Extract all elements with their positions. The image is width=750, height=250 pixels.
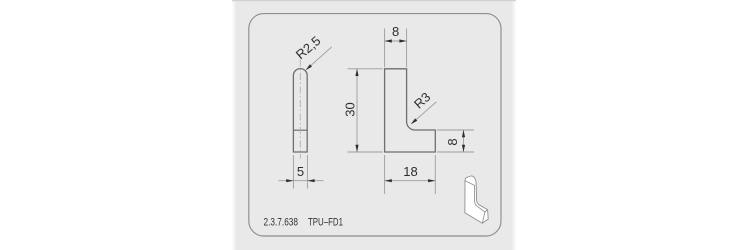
svg-text:30: 30 <box>342 102 357 116</box>
canvas top darker edge <box>232 0 516 1</box>
dimension 5 line <box>279 180 324 182</box>
dimension 8 top: arrow right <box>399 39 406 42</box>
side view: capsule-top profile body <box>293 69 307 152</box>
leader R2,5 line <box>306 47 332 70</box>
dimension 18: line <box>385 180 436 182</box>
3D view: bar front-right edge and front fillet <box>475 185 485 223</box>
dimension 8 top: extension line left <box>384 29 386 68</box>
svg-text:8: 8 <box>392 24 399 39</box>
side view: vertical centerline <box>299 60 301 159</box>
dimension 30: line <box>356 69 358 152</box>
dimension 8 right: line <box>463 130 465 152</box>
dimension 8 right: arrow up <box>462 130 465 137</box>
svg-text:8: 8 <box>445 138 460 145</box>
3D view: top cap tangency line <box>465 181 474 186</box>
gray drawing canvas background <box>232 0 516 250</box>
dimension 30: arrow up <box>355 69 358 76</box>
side view: foot edge line <box>293 129 307 131</box>
dimension 8 top: line <box>385 40 407 42</box>
leader R2,5 arrow <box>306 64 312 70</box>
dimension 5 extension line right <box>306 155 308 189</box>
dimension 18: extension line right <box>434 155 436 194</box>
dimension 8 top: arrow left <box>385 39 392 42</box>
dimension 8 top: extension line right <box>406 29 408 68</box>
L-shape front view outline <box>385 69 436 152</box>
dimension 18: arrow right <box>428 179 435 182</box>
dimension 18: extension line left <box>384 155 386 194</box>
svg-text:18: 18 <box>403 164 417 179</box>
dimension 8 right: extension line bottom <box>437 151 474 153</box>
dimension 8 right: arrow down <box>462 145 465 152</box>
svg-text:TPU–FD1: TPU–FD1 <box>308 217 343 229</box>
3D isometric view of part: silhouette <box>465 176 488 223</box>
dimension 30: arrow down <box>355 145 358 152</box>
dimension 30: extension line bottom <box>348 151 383 153</box>
dimension 5 arrow left (outside, pointing right) <box>286 179 293 182</box>
leader R3 arrow <box>411 118 418 124</box>
dimension 5 arrow right (outside, pointing left) <box>307 179 314 182</box>
dimension 5 extension line left <box>292 155 294 189</box>
leader R3 line <box>412 102 437 124</box>
svg-text:2.3.7.638: 2.3.7.638 <box>264 217 299 229</box>
3D view: foot end top depth edge <box>485 210 488 212</box>
dimension 18: arrow left <box>385 179 392 182</box>
dimension 8 right: extension line top <box>437 129 474 131</box>
svg-text:5: 5 <box>297 164 304 179</box>
dimension 30: extension line top <box>348 68 383 70</box>
frame (rounded border of drawing sheet) <box>249 14 501 236</box>
